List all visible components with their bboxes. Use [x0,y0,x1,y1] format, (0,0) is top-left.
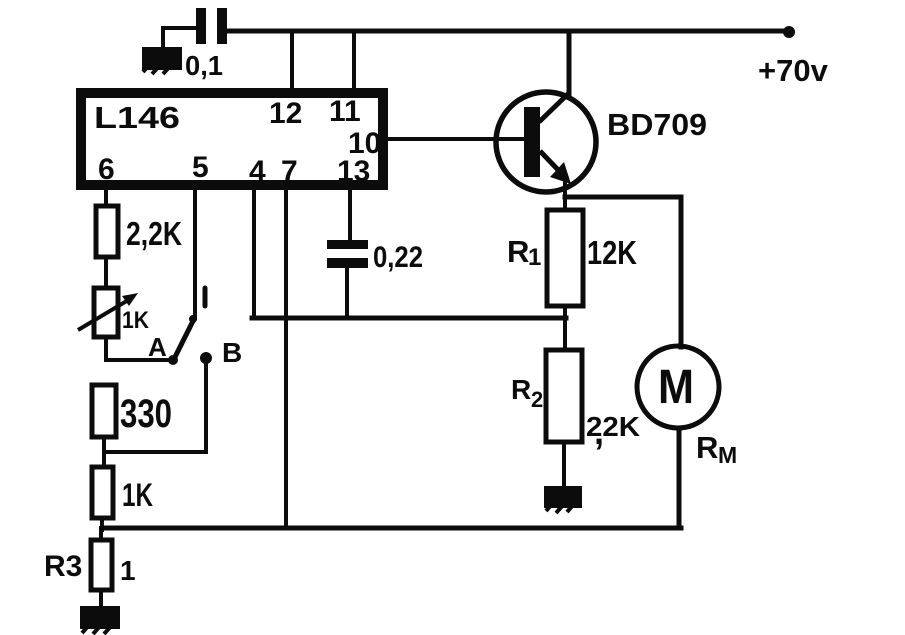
svg-text:1: 1 [528,244,541,271]
resistor 1K lower [92,467,153,518]
svg-text:0,1: 0,1 [185,50,223,81]
svg-text:L146: L146 [94,100,180,135]
svg-text:M: M [658,361,694,414]
wire pin 5 [193,185,197,318]
wire 2,2K to pot [104,257,108,288]
resistor R1 12K [507,210,637,306]
svg-text:+70v: +70v [758,53,829,88]
resistor 330 [92,385,172,437]
pin 10 label [348,127,381,160]
svg-text:BD709: BD709 [607,107,707,142]
svg-text:5: 5 [192,151,209,184]
resistor R2 22K [511,350,640,452]
pin 4 label [249,155,266,188]
svg-text:12K: 12K [587,234,637,271]
svg-text:R: R [696,430,718,465]
resistor 2,2K [96,206,182,257]
wire pin 6 [104,185,108,206]
wire R3 to ground [99,590,103,609]
capacitor C1 0,1 [185,8,227,81]
svg-text:7: 7 [281,155,298,188]
wire emitter row to motor branch [565,195,681,200]
wire rail to collector [567,31,572,95]
switch arm [174,315,197,359]
svg-text:330: 330 [120,392,172,436]
svg-text:12: 12 [269,97,302,130]
potentiometer 1K [78,288,150,337]
pin 5 label [192,151,209,184]
svg-text:2,2K: 2,2K [126,215,182,252]
wire motor top [679,197,684,347]
op-amp U1 L146 box [81,93,383,185]
svg-text:2: 2 [531,387,543,412]
ground top-left [142,47,182,74]
svg-text:M: M [718,442,737,468]
wire pin 4 to R1/R2 junction [252,185,566,318]
wire rail to R3 [99,528,103,541]
pin 12 label [269,97,302,130]
svg-text:R3: R3 [44,550,82,583]
wire rail to pin 12 [290,31,294,92]
wire C1 left lead to ground [163,28,196,48]
svg-text:6: 6 [98,153,115,186]
svg-text:,: , [594,411,604,452]
svg-text:11: 11 [329,95,361,128]
svg-text:A: A [148,332,167,362]
svg-text:1K: 1K [122,307,150,334]
pin 11 label [329,95,361,128]
svg-text:R: R [507,234,529,269]
node A [148,332,178,365]
wire C2 to junction [345,266,349,318]
node B [200,337,242,368]
ground under R2 [544,486,582,513]
resistor R3 1 [44,540,136,590]
svg-text:1K: 1K [122,477,153,513]
pin 13 label [337,155,370,188]
wire pin 13 [348,185,352,241]
transistor Q1 BD709 [496,92,707,192]
wire 330 to 1K [102,437,106,467]
switch open mark I [203,288,208,306]
wire R1 to R2 [563,306,567,350]
wire emitter down [563,180,567,212]
ground bottom-left [80,606,120,634]
wire pin 10 to base [384,137,524,141]
svg-text:4: 4 [249,155,266,188]
node +70v terminal [758,26,829,88]
wire motor bottom [677,428,682,528]
wire top rail +70v [226,29,789,34]
svg-text:0,22: 0,22 [373,241,423,274]
wire pot to node A [106,337,170,360]
svg-text:B: B [222,337,242,368]
pin 7 label [281,155,298,188]
svg-text:1: 1 [120,555,136,586]
wire node B to 330/1K junction [104,362,206,452]
pin 6 label [98,153,115,186]
capacitor C2 0,22 [327,240,423,274]
wire pin 7 to bottom rail [284,185,288,528]
motor M [637,346,737,468]
svg-text:13: 13 [337,155,370,188]
svg-text:R: R [511,374,531,405]
wire 1K to bottom rail [100,518,104,530]
wire R2 to ground [562,442,566,487]
wire rail to pin 11 [352,31,356,92]
wire bottom rail [104,526,681,531]
